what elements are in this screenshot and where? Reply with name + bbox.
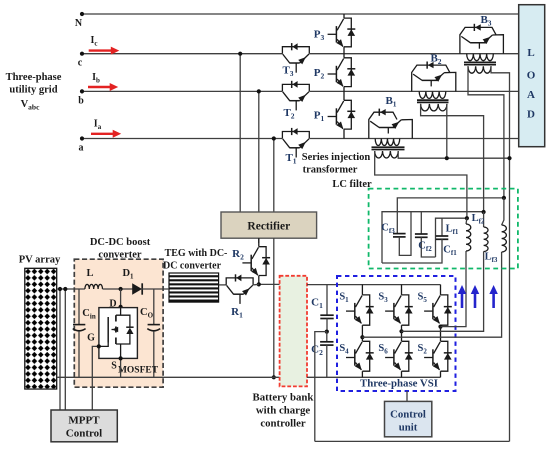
label three-phase VSI: [360, 378, 438, 390]
svg-text:MPPT: MPPT: [68, 415, 100, 427]
label D: [109, 299, 116, 310]
transformer B2 primary: [419, 91, 446, 98]
wire VSI phase 1 out: [362, 252, 501, 337]
svg-text:converter: converter: [98, 250, 141, 261]
wire B2 secondary left lead: [421, 104, 484, 212]
label battery bank: [253, 392, 314, 430]
node leg 3 midpoint: [438, 325, 442, 329]
transformer B1 secondary: [375, 151, 399, 158]
junction rectifier neg to rail: [272, 375, 276, 379]
current arrow Ia: [91, 130, 121, 138]
label LC filter: [332, 179, 372, 190]
label S: [111, 361, 117, 372]
wire phase N: [82, 13, 519, 15]
label C2: [311, 344, 323, 358]
svg-text:D: D: [527, 109, 535, 121]
label Ic: [90, 35, 97, 48]
control unit box: [385, 401, 432, 436]
wire phase c (T3 to LOAD): [309, 53, 518, 55]
svg-text:N: N: [75, 18, 83, 29]
wire filter line A: [397, 198, 504, 234]
capacitor Co: [147, 289, 160, 377]
label R1: [231, 306, 243, 320]
node c start: [78, 52, 84, 69]
junction B line: [482, 210, 486, 214]
wire R1 to junction: [253, 283, 259, 286]
current arrow Ib: [88, 83, 118, 91]
capacitor Cf2: [415, 212, 436, 257]
capacitor C2: [320, 332, 333, 378]
label DC-DC boost converter: [90, 237, 151, 261]
svg-text:L: L: [527, 47, 534, 59]
wire PV sense 2: [64, 289, 66, 410]
label T3: [282, 65, 293, 79]
label Lf1: [446, 224, 459, 237]
label T1: [285, 152, 296, 166]
label T2: [283, 107, 294, 121]
transistor S4: [346, 337, 374, 377]
bypass switch B3: [460, 24, 504, 54]
wire phase b (T2 to LOAD): [309, 90, 518, 92]
blue arrow 1: [458, 285, 467, 308]
wire phase c (left): [82, 53, 282, 55]
wire B2 secondary right lead: [446, 104, 448, 158]
label Lf3: [485, 252, 498, 265]
junction R1 R2: [257, 282, 261, 286]
wire midpoint stub: [315, 332, 327, 442]
wire filter line C: [436, 218, 467, 257]
node N start: [75, 12, 84, 29]
capacitor Cf3: [393, 212, 411, 256]
label Ia: [94, 119, 102, 132]
svg-text:O: O: [527, 70, 536, 82]
label control unit: [390, 409, 426, 434]
node leg 2 midpoint: [399, 329, 403, 333]
svg-text:MOSFET: MOSFET: [118, 366, 159, 376]
wire VSI phase 3 out: [441, 251, 467, 327]
label B2: [430, 53, 441, 67]
wire gate to MPPT: [92, 346, 99, 410]
svg-text:Series injection: Series injection: [302, 152, 371, 163]
svg-text:L: L: [86, 268, 93, 279]
label B3: [480, 14, 491, 28]
battery bank box: [280, 276, 307, 387]
wire a to rectifier: [273, 139, 275, 213]
label Vabc: [21, 99, 41, 112]
label series injection transformer: [302, 152, 371, 176]
svg-text:with charge: with charge: [256, 405, 310, 417]
label B1: [385, 95, 396, 109]
MOSFET symbol: [99, 308, 134, 359]
transistor T2: [282, 81, 309, 111]
wire phase b (left): [82, 90, 282, 92]
wire MOSFET source to rail: [120, 358, 122, 377]
label C1: [311, 297, 323, 311]
bypass switch B1: [369, 109, 413, 139]
wire B1 secondary right lead: [398, 151, 509, 158]
wire PV positive: [57, 288, 85, 290]
transformer B2 core: [417, 100, 449, 102]
capacitor Cf1: [382, 218, 448, 263]
boost converter dashed box: [74, 259, 163, 387]
svg-text:A: A: [527, 89, 535, 101]
wire B1 secondary left lead: [375, 151, 467, 218]
inductor Lf3: [502, 198, 507, 252]
transformer B1 primary: [375, 139, 400, 146]
label three-phase utility grid: [6, 72, 62, 96]
wire rectifier neg output: [273, 238, 275, 377]
label G: [87, 333, 95, 344]
wire TEG to R1: [219, 284, 227, 286]
MPPT box: [51, 410, 117, 442]
label PV array: [19, 255, 61, 266]
inductor Lf2: [484, 212, 488, 252]
blue arrow 3: [489, 285, 498, 308]
inductor L: [85, 284, 103, 289]
label Cin: [82, 308, 96, 321]
wire D1 to TEG: [142, 288, 169, 290]
label MPPT Control: [66, 415, 102, 440]
label S5: [418, 292, 428, 305]
label D1: [122, 268, 134, 281]
transistor R2: [242, 238, 270, 284]
capacitor Cin: [73, 289, 86, 377]
label S1: [339, 292, 349, 305]
svg-text:b: b: [78, 95, 84, 106]
transistor P1: [328, 91, 356, 138]
junction A line: [502, 196, 506, 200]
bypass switch B2: [412, 62, 456, 92]
wire phase a (T1 to LOAD): [309, 138, 518, 140]
svg-text:LC filter: LC filter: [332, 179, 372, 190]
label P1: [314, 110, 325, 124]
wire L to D node: [103, 288, 133, 290]
svg-text:a: a: [79, 143, 84, 154]
transformer B2 secondary: [421, 104, 447, 111]
LC filter dashed box: [369, 189, 518, 269]
wire VSI to control unit: [406, 391, 408, 401]
label Ib: [92, 72, 100, 85]
wire B3 secondary left lead: [468, 66, 504, 198]
transformer B1 core: [372, 147, 405, 149]
diode D1: [132, 283, 142, 294]
label rectifier: [247, 221, 290, 233]
label Co: [140, 307, 154, 320]
VSI dashed box: [337, 276, 456, 391]
label S3: [378, 292, 388, 305]
blue arrow 2: [471, 285, 480, 308]
wire VSI phase 2 out: [402, 252, 484, 332]
TEG block: [169, 273, 219, 302]
junction C line: [465, 216, 469, 220]
label S6: [378, 343, 388, 356]
wire B3 secondary right lead: [491, 66, 510, 441]
svg-text:unit: unit: [399, 422, 418, 434]
node MOSFET drain: [119, 305, 123, 309]
rectifier box: [221, 212, 317, 238]
transistor T3: [282, 43, 309, 73]
node a start: [79, 136, 85, 153]
label P2: [314, 67, 325, 81]
wire b to rectifier: [258, 91, 260, 212]
transistor P2: [328, 54, 356, 92]
transistor S3: [385, 285, 413, 332]
transformer B3 core: [464, 62, 496, 64]
capacitor C1: [320, 285, 333, 332]
label L: [86, 268, 93, 279]
svg-text:Three-phase: Three-phase: [6, 72, 62, 83]
svg-text:Three-phase VSI: Three-phase VSI: [360, 378, 438, 390]
svg-text:S: S: [111, 361, 117, 372]
label Cf2: [418, 241, 432, 254]
junction c-rectifier: [238, 52, 242, 56]
svg-text:controller: controller: [260, 418, 306, 430]
transformer B3 primary: [467, 54, 494, 61]
label S2: [418, 343, 428, 356]
node sense 2: [63, 287, 67, 291]
wire PV sense 1: [59, 289, 61, 410]
svg-text:Control: Control: [390, 409, 426, 421]
PV array block: [25, 268, 57, 389]
svg-text:DC-DC boost: DC-DC boost: [90, 237, 151, 248]
svg-text:TEG with DC-: TEG with DC-: [165, 248, 228, 259]
svg-text:PV array: PV array: [19, 255, 61, 266]
node gate: [97, 344, 101, 348]
wire phase a (left): [82, 138, 282, 140]
label P3: [314, 29, 325, 43]
transistor P3: [328, 14, 356, 54]
transistor S2: [424, 327, 452, 378]
svg-text:Control: Control: [66, 428, 102, 440]
node D on bus: [119, 287, 123, 291]
transformer B3 secondary: [468, 66, 491, 73]
transistor S5: [424, 285, 452, 327]
junction b-rectifier: [257, 89, 261, 93]
MOSFET box: [99, 308, 137, 359]
node leg 1 midpoint: [360, 335, 364, 339]
svg-text:Battery bank: Battery bank: [253, 392, 314, 404]
label S4: [339, 343, 349, 356]
transistor R1: [226, 274, 253, 304]
junction B3 lead / B1 line: [507, 156, 511, 160]
junction B2 sec to line: [445, 156, 449, 160]
transistor T1: [282, 128, 309, 158]
current arrow Ic: [89, 47, 120, 55]
label Cf3: [381, 223, 395, 236]
svg-text:transformer: transformer: [303, 165, 358, 176]
junction C1 C2: [325, 330, 329, 334]
transistor S6: [385, 331, 413, 377]
label TEG title: [163, 248, 227, 272]
wire rectifier to R2: [258, 238, 260, 243]
wire bottom rail (right): [307, 376, 441, 378]
LOAD box: [519, 5, 545, 147]
node b start: [78, 89, 84, 106]
wire R2 R1 to battery: [259, 283, 280, 285]
wire bottom rail (left): [57, 376, 280, 378]
node sense 1: [58, 287, 62, 291]
svg-text:utility grid: utility grid: [9, 85, 57, 96]
wire bottom frame: [315, 440, 510, 442]
transistor S1: [346, 285, 374, 338]
label Cf1: [443, 245, 457, 258]
label MOSFET: [118, 366, 159, 376]
wire DC bus positive: [307, 284, 441, 286]
label Lf2: [472, 213, 485, 226]
label LOAD: [527, 47, 536, 121]
wire D node to MOSFET drain: [120, 289, 122, 308]
wire filter line B: [382, 212, 484, 263]
svg-text:G: G: [87, 333, 95, 344]
svg-text:c: c: [78, 58, 83, 69]
inductor Lf1: [466, 218, 471, 251]
junction a-rectifier: [272, 136, 276, 140]
svg-text:DC converter: DC converter: [163, 261, 222, 272]
wire c to rectifier: [239, 54, 241, 212]
svg-text:Rectifier: Rectifier: [247, 221, 290, 233]
node MOSFET source: [119, 356, 123, 360]
label R2: [232, 248, 244, 262]
